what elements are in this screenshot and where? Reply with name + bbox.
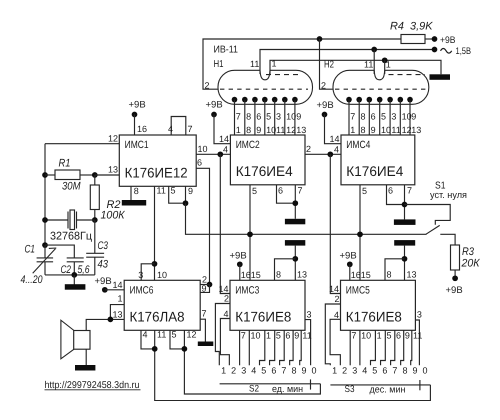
svg-text:9: 9	[411, 112, 416, 122]
wire IMS6 pin 5 loop	[170, 330, 184, 349]
svg-text:1: 1	[350, 125, 355, 135]
wire R1 left lead	[45, 174, 55, 176]
wire H2 pin 1 drop	[384, 60, 386, 74]
svg-text:уст. нуля: уст. нуля	[430, 190, 467, 201]
node junction pins 5/12 (IMS6)	[182, 346, 188, 352]
H2 pin dot and wire 4	[377, 97, 383, 103]
wire crystal right lead	[77, 219, 95, 221]
svg-text:3: 3	[138, 270, 143, 280]
svg-text:6: 6	[271, 366, 276, 376]
wire R1 right lead to node B	[80, 174, 95, 176]
node junction pins 6/7 (IMS4)	[402, 202, 408, 208]
wire IMS6 pin 1	[110, 305, 124, 320]
svg-text:9: 9	[296, 112, 301, 122]
wire pin 10 to position 4	[359, 330, 361, 365]
H1 pin dot and wire 7	[292, 97, 298, 103]
IC IMS1 K176IE12	[119, 135, 196, 186]
svg-text:9: 9	[202, 284, 207, 294]
svg-text:3: 3	[241, 366, 246, 376]
terminal +9V IMS3 pin16	[237, 261, 243, 267]
wire IMS6 pin 3 branch	[141, 264, 154, 281]
wire pin 5 to position 6	[381, 330, 386, 365]
svg-text:ИМС6: ИМС6	[130, 284, 154, 296]
wire C2 bottom lead	[73, 262, 75, 275]
wire IMS6 pin 2	[200, 284, 209, 286]
svg-text:9: 9	[302, 366, 307, 376]
wire node A to IMS1 pin 12	[45, 143, 119, 145]
wire IMS3 pin 16	[239, 264, 241, 280]
H2 pin dot and wire 3	[367, 97, 373, 103]
svg-text:+9В: +9В	[230, 251, 247, 262]
svg-text:7: 7	[298, 186, 303, 196]
wire pin 9 to position 8	[401, 330, 404, 365]
wire IMS5 pin 16	[349, 264, 351, 280]
terminal +9V IMS5 pin16	[347, 261, 353, 267]
wire R3 bottom lead	[454, 270, 456, 278]
node junction reset/pin15 (IMS3)	[247, 231, 253, 237]
svg-text:8: 8	[387, 270, 392, 280]
svg-text:+9В: +9В	[340, 251, 357, 262]
ground bar (IMS6 pin 7)	[198, 342, 214, 347]
svg-text:100К: 100К	[101, 210, 125, 222]
IC IMS5 K176IE8	[341, 280, 416, 330]
svg-text:5: 5	[387, 331, 392, 341]
wire C2 ground stub	[73, 275, 75, 285]
terminal +9V (R3)	[452, 275, 458, 281]
svg-text:7: 7	[236, 112, 241, 122]
H1 pin dot and wire 5	[272, 97, 278, 103]
wire IMS2 pin 5 down to IMS5... IMS3 pin 15	[249, 185, 251, 280]
wire node B to IMS1 pin 13	[95, 174, 120, 176]
wire line to IMS5 pin 14	[330, 154, 340, 293]
ground bar (IMS1 pin 8)	[122, 200, 146, 206]
capacitor bar to IMS5 pins 8/13	[394, 240, 415, 246]
svg-text:4: 4	[143, 330, 148, 340]
wire IMS1 pin 5 loop	[169, 186, 186, 203]
svg-text:11: 11	[302, 331, 311, 341]
node junction crystal right	[92, 217, 98, 223]
svg-text:+9В: +9В	[440, 35, 456, 46]
H2 pin dot and wire 7	[407, 97, 413, 103]
svg-text:11: 11	[413, 331, 422, 341]
wire IMS6 pin 14	[105, 289, 124, 291]
svg-text:С3: С3	[98, 240, 109, 252]
svg-text:К176ИЕ4: К176ИЕ4	[346, 163, 403, 179]
svg-text:7: 7	[351, 331, 356, 341]
wire pin 2 to position 1	[215, 304, 230, 366]
vacuum tube H1 (IV-11) envelope	[218, 70, 313, 104]
svg-text:13: 13	[407, 270, 417, 280]
svg-text:R3: R3	[462, 246, 475, 258]
wire pin 6 to position 7	[280, 330, 285, 365]
terminal +9V (heater supply)	[432, 36, 438, 42]
wire clock line to IMS3 pin 14	[220, 154, 230, 293]
wire IMS6 pin 12 to S2 common	[184, 330, 320, 394]
svg-text:5: 5	[171, 186, 176, 196]
svg-text:16: 16	[241, 270, 251, 280]
terminal ~1,5V	[432, 47, 438, 53]
svg-text:2: 2	[321, 81, 326, 91]
svg-text:6: 6	[278, 186, 283, 196]
crystal ZQ1 32768Hz	[67, 212, 69, 229]
wire R2 top lead	[94, 175, 96, 185]
wire IMS1 pins 4-7 loop	[171, 117, 186, 136]
node junction crystal left	[42, 217, 48, 223]
svg-text:Н2: Н2	[324, 60, 334, 71]
node junction H2 pin2 on +9V rail	[317, 36, 323, 42]
svg-text:ИМС2: ИМС2	[236, 139, 260, 151]
svg-text:ИМС1: ИМС1	[125, 139, 149, 151]
svg-text:8: 8	[291, 366, 296, 376]
wire pin 9 to position 8	[290, 330, 293, 365]
svg-text:10: 10	[286, 112, 296, 122]
svg-text:6: 6	[256, 112, 261, 122]
svg-text:7: 7	[202, 309, 207, 319]
node junction pins 1/13 (IMS6)	[108, 317, 114, 323]
node junction pins 6/7 (IMS2)	[292, 200, 298, 206]
svg-text:32768Гц: 32768Гц	[50, 230, 93, 242]
svg-text:4...20: 4...20	[21, 274, 44, 286]
svg-text:9: 9	[294, 331, 299, 341]
wire filament +9V rail (tube pins 2)	[203, 39, 401, 89]
svg-text:К176ИЕ8: К176ИЕ8	[235, 308, 291, 324]
svg-text:9: 9	[371, 125, 376, 135]
wire pin 7 to position 3	[239, 330, 241, 365]
svg-text:5: 5	[266, 112, 271, 122]
svg-text:0: 0	[312, 366, 317, 376]
node junction pin10/pin4	[217, 151, 223, 157]
wire IMS5 pin 8 branch	[385, 259, 405, 281]
wire IMS1 pin 16	[134, 115, 136, 136]
resistor R2	[90, 185, 99, 210]
svg-text:3: 3	[417, 310, 422, 320]
svg-text:10: 10	[266, 125, 276, 135]
svg-text:4: 4	[223, 145, 228, 155]
svg-text:3: 3	[391, 112, 396, 122]
wire IMS6 pin 11 to S3 common	[155, 330, 431, 400]
svg-text:+9В: +9В	[129, 100, 146, 111]
wire pin 11 to position 9	[411, 330, 412, 365]
wire pin 4 to position 2	[220, 319, 230, 366]
svg-text:8: 8	[402, 366, 407, 376]
svg-text:S3: S3	[345, 384, 355, 395]
svg-text:11: 11	[157, 330, 166, 340]
svg-text:4: 4	[168, 124, 173, 134]
svg-text:5: 5	[172, 330, 177, 340]
wire pin 10 to position 4	[248, 330, 250, 365]
svg-text:ИМС3: ИМС3	[235, 284, 259, 296]
svg-text:12: 12	[286, 125, 296, 135]
svg-text:9: 9	[188, 186, 193, 196]
selector S3 wiper tick	[419, 380, 421, 390]
svg-text:Н1: Н1	[214, 59, 224, 70]
wire IMS6 pin 13 to speaker	[86, 319, 124, 330]
ground bar (grid rail)	[430, 74, 451, 80]
svg-text:11: 11	[250, 59, 259, 69]
svg-text:16: 16	[351, 270, 361, 280]
svg-text:6: 6	[382, 366, 387, 376]
svg-text:7: 7	[392, 366, 397, 376]
wire C1 top lead	[44, 245, 46, 258]
svg-text:15: 15	[251, 270, 261, 280]
svg-text:+9В: +9В	[206, 100, 223, 111]
selector S3 body	[330, 384, 430, 386]
svg-text:К176ИЕ12: К176ИЕ12	[125, 164, 188, 180]
wire speaker to ground	[85, 349, 87, 365]
svg-text:14: 14	[329, 284, 339, 294]
capacitor C3 plates	[86, 252, 104, 254]
svg-text:2: 2	[306, 144, 311, 154]
wire IMS6 pin 9 branch	[200, 285, 209, 293]
svg-text:43: 43	[98, 259, 109, 271]
svg-text:1: 1	[386, 60, 391, 70]
svg-text:R4 3,9K: R4 3,9K	[390, 21, 433, 33]
svg-text:http://299792458.3dn.ru: http://299792458.3dn.ru	[45, 380, 140, 391]
svg-text:7: 7	[188, 124, 193, 134]
terminal +9V IMS2 pin14	[211, 112, 217, 118]
svg-text:5,6: 5,6	[78, 264, 91, 276]
wire pin 3 to position 0	[415, 320, 419, 365]
svg-text:13: 13	[112, 310, 122, 320]
svg-text:30М: 30М	[62, 181, 81, 193]
svg-text:9: 9	[405, 331, 410, 341]
H1 pin dot and wire 1	[232, 97, 238, 103]
svg-text:11: 11	[276, 125, 285, 135]
svg-text:20К: 20К	[461, 258, 480, 270]
wire IMS4 pin 6 loop	[387, 185, 405, 205]
wire bar to IMS3 pins junction	[294, 246, 296, 281]
svg-text:9: 9	[413, 366, 418, 376]
wire crystal left lead	[45, 219, 68, 221]
wire pin 1 to position 5	[260, 330, 265, 365]
wire IMS1 pin 9	[185, 186, 187, 203]
svg-text:7: 7	[281, 366, 286, 376]
svg-text:11: 11	[391, 125, 400, 135]
wire R4 to +9V terminal	[425, 38, 435, 40]
wire pin 3 to position 0	[305, 320, 311, 366]
wire pin 5 to position 6	[270, 330, 275, 365]
ground bar (IMS4 pin 7)	[394, 219, 416, 225]
svg-text:5: 5	[261, 366, 266, 376]
svg-text:13: 13	[411, 125, 421, 135]
svg-text:6: 6	[388, 186, 393, 196]
node junction pin2/pin4	[327, 151, 333, 157]
wire oscillator ground rail	[45, 274, 95, 276]
H1 pin dot and wire 6	[282, 97, 288, 103]
svg-text:ИМС4: ИМС4	[346, 139, 370, 151]
wire S1 fixed contact from pins6/7	[405, 205, 451, 225]
wire IMS1 pin 10 to IMS2 pin 4	[196, 153, 230, 155]
svg-text:4: 4	[223, 309, 228, 319]
IC IMS4 K176IE4	[341, 135, 415, 185]
wire branch to C2	[45, 245, 74, 258]
svg-text:7: 7	[407, 186, 412, 196]
IC IMS2 K176IE4	[230, 135, 305, 185]
node junction R1 right / R2 top	[92, 172, 98, 178]
wire IMS1 pin 11 down	[154, 186, 156, 280]
svg-text:12: 12	[187, 330, 197, 340]
capacitor C1 (trimmer) plates	[37, 257, 54, 259]
H2 pin dot and wire 5	[387, 97, 393, 103]
wire IMS6 pin 4 loop	[141, 330, 155, 349]
svg-text:4: 4	[362, 366, 367, 376]
svg-text:16: 16	[137, 124, 147, 134]
svg-text:14: 14	[219, 134, 229, 144]
svg-text:10: 10	[198, 144, 208, 154]
svg-text:5: 5	[276, 331, 281, 341]
svg-text:5: 5	[252, 186, 257, 196]
vacuum tube H2 (IV-11) envelope	[333, 70, 429, 104]
svg-text:+9В: +9В	[95, 276, 112, 287]
wire pin 2 to position 1	[325, 304, 340, 365]
svg-text:13: 13	[297, 270, 307, 280]
label ~ 1,5V	[441, 49, 452, 54]
svg-text:1: 1	[272, 59, 277, 69]
wire IMS4 pin 7	[404, 185, 406, 220]
svg-text:11: 11	[157, 186, 166, 196]
ground bar (IMS2 pin 7)	[285, 219, 305, 225]
speaker BA1 coil	[74, 331, 90, 350]
svg-text:6: 6	[197, 158, 202, 168]
svg-text:5: 5	[362, 186, 367, 196]
svg-text:5: 5	[381, 112, 386, 122]
svg-text:10: 10	[402, 112, 412, 122]
capacitor C1 arrow	[33, 249, 56, 274]
wire pin 4 to position 2	[330, 319, 340, 365]
wire IMS4 pin 14	[325, 115, 342, 144]
node junction H2 pin11 on 1,5V rail	[371, 47, 377, 53]
svg-text:10: 10	[381, 125, 391, 135]
resistor R4	[401, 35, 425, 44]
svg-text:8: 8	[361, 125, 366, 135]
wire IMS3 pin 8 branch	[275, 259, 296, 281]
H2 pin dot and wire 2	[356, 97, 362, 103]
svg-text:8: 8	[276, 270, 281, 280]
wire C3 top lead	[94, 220, 96, 253]
svg-text:8: 8	[246, 112, 251, 122]
wire H2 pin 11 drop	[373, 50, 375, 75]
capacitor bar to IMS3 pins 8/13	[285, 240, 305, 246]
svg-text:4: 4	[334, 145, 339, 155]
svg-text:7: 7	[350, 112, 355, 122]
svg-text:10: 10	[251, 331, 261, 341]
wire pin 7 to position 3	[349, 330, 351, 365]
wire heater 1,5V rail	[260, 50, 435, 75]
resistor R3	[451, 245, 460, 270]
svg-text:2: 2	[231, 366, 236, 376]
svg-text:2: 2	[224, 294, 229, 304]
node junction H2 pin1 on grid rail	[382, 57, 388, 63]
svg-text:3: 3	[276, 112, 281, 122]
svg-text:8: 8	[246, 125, 251, 135]
svg-text:1: 1	[266, 331, 271, 341]
svg-text:14: 14	[218, 284, 228, 294]
selector S2 wiper tick	[310, 379, 312, 389]
wire pin 6 to position 7	[391, 330, 395, 365]
wire IMS2 pin 6 loop	[277, 185, 296, 203]
wire IMS6 pin 7	[200, 319, 205, 341]
switch S1 blade	[426, 225, 440, 234]
node junction C2 ground	[71, 272, 77, 278]
H2 pin dot and wire 1	[346, 97, 352, 103]
node junction IMS3 pins 8/13	[292, 256, 298, 262]
svg-text:14: 14	[329, 134, 339, 144]
svg-text:S2: S2	[249, 384, 259, 395]
svg-text:13: 13	[108, 165, 118, 175]
wire IMS4 pin 5 down to IMS5 pin 15	[359, 185, 361, 280]
svg-text:ИВ-11: ИВ-11	[214, 45, 239, 56]
selector S2 body	[220, 383, 321, 385]
svg-text:8: 8	[134, 186, 139, 196]
wire IMS2 pin 7	[294, 185, 296, 219]
svg-text:1: 1	[117, 294, 122, 304]
svg-text:4: 4	[251, 366, 256, 376]
svg-text:С1: С1	[25, 244, 36, 256]
svg-text:К176ЛА8: К176ЛА8	[130, 308, 185, 324]
wire reset line	[186, 203, 427, 234]
svg-text:10: 10	[361, 331, 371, 341]
wire node A vertical	[44, 144, 46, 245]
H2 pin dot and wire 6	[398, 97, 404, 103]
wire C3 bottom lead	[94, 257, 96, 275]
svg-text:0: 0	[423, 366, 428, 376]
wire S1 to R3	[440, 234, 455, 245]
speaker BA1 cone	[61, 320, 74, 359]
wire pin 11 to position 9	[300, 330, 302, 365]
node junction IMS5 pins 8/13	[402, 256, 408, 262]
svg-text:1: 1	[221, 366, 226, 376]
svg-text:10: 10	[157, 270, 167, 280]
svg-text:+9В: +9В	[446, 285, 463, 296]
wire C1 bottom lead	[44, 262, 46, 275]
terminal +9V IMS4 pin14	[322, 112, 328, 118]
capacitor C2 plates	[67, 257, 84, 259]
svg-text:2: 2	[334, 294, 339, 304]
node junction R1 left	[42, 172, 48, 178]
terminal +9V IMS1 pin16	[132, 112, 138, 118]
svg-text:7: 7	[241, 331, 246, 341]
svg-text:14: 14	[112, 280, 122, 290]
svg-text:С2: С2	[61, 264, 72, 276]
wire grid rail (tube pins 1)	[270, 60, 441, 74]
wire R2 bottom lead	[94, 210, 96, 221]
svg-text:+9В: +9В	[317, 100, 334, 111]
svg-text:2: 2	[342, 366, 347, 376]
svg-text:ИМС5: ИМС5	[346, 284, 370, 296]
svg-text:9: 9	[256, 125, 261, 135]
svg-text:15: 15	[361, 270, 371, 280]
wire IMS2 pin 14	[214, 115, 230, 144]
node junction IMS6 pins2/9	[207, 282, 213, 288]
wire IMS2 pin 2 to IMS4 pin 4	[305, 153, 341, 155]
svg-text:11: 11	[364, 60, 373, 70]
svg-text:8: 8	[361, 112, 366, 122]
H1 pin dot and wire 4	[262, 97, 268, 103]
svg-text:5: 5	[372, 366, 377, 376]
svg-text:К176ИЕ8: К176ИЕ8	[346, 308, 402, 324]
IC IMS3 K176IE8	[230, 280, 305, 330]
terminal +9V IMS6 pin14	[102, 287, 108, 293]
resistor R1	[55, 170, 80, 180]
node junction pins 5/9	[183, 200, 189, 206]
svg-text:6: 6	[285, 331, 290, 341]
wire IMS1 pin 8	[130, 186, 132, 200]
H1 pin dot and wire 2	[242, 97, 248, 103]
svg-text:6: 6	[371, 112, 376, 122]
svg-text:К176ИЕ4: К176ИЕ4	[236, 163, 293, 179]
wire bar to IMS5 pins junction	[404, 246, 406, 281]
svg-text:1: 1	[377, 331, 382, 341]
